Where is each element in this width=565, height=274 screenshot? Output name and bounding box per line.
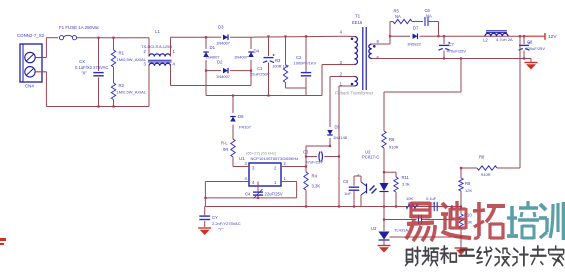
wire TL431 ref line [390,236,462,238]
svg-text:NA: NA [395,14,401,19]
wire FB trace rail [205,197,296,199]
capacitor CY [199,207,240,232]
transistor U3 TL431A [371,207,408,246]
common-mode choke L1 [141,29,176,107]
resistor R10 3.3K [459,207,473,249]
svg-text:D2: D2 [217,60,223,65]
watermark subtitle [406,0,564,274]
wire T1 pin3 to drain line [322,65,355,96]
svg-text:470uF/25V: 470uF/25V [447,49,467,54]
op-amp U1 NCP1014 box [239,151,298,187]
wire CN4 pin2 to bottom rail [35,72,46,107]
svg-text:CX: CX [79,59,85,64]
svg-text:D5: D5 [335,125,341,130]
svg-text:C5: C5 [343,179,349,184]
resistor R11 3.3k [384,172,410,206]
capacitor CX [75,38,108,107]
svg-text:C4: C4 [245,192,251,197]
capacitor C6 NA [425,8,439,26]
svg-text:1N4148: 1N4148 [333,135,348,140]
svg-text:4.7uH 2A: 4.7uH 2A [496,37,513,42]
svg-text:910R: 910R [481,172,491,177]
svg-text:NCP1014ST65T3G/65KHz: NCP1014ST65T3G/65KHz [251,156,299,161]
svg-text:CN4: CN4 [25,84,34,89]
svg-text:T1: T1 [355,14,361,19]
wire L1 pin4 to bridge AC2 [171,66,252,86]
wire secondary gnd rail [205,205,461,207]
svg-text:1M/0.5W_AXIAL: 1M/0.5W_AXIAL [117,89,147,94]
capacitor C2 [294,36,317,88]
svg-text:1N4007: 1N4007 [216,74,231,79]
wire 12V down to R8 [519,36,521,168]
svg-text:12V: 12V [548,34,557,40]
opto U2 PC817-C [354,150,389,207]
wire U1 pin3 [233,161,249,167]
watermark big text yiditou peixun [406,201,564,241]
capacitor C4 [245,182,283,199]
wire U1 pin2 VCC [281,161,307,168]
resistor R8 910R [461,155,520,178]
wire clamp bottom bar [286,88,307,96]
resistor R5 NA [390,9,423,24]
capacitor C7 [439,36,467,58]
resistor R3 [272,36,289,88]
wire U1 pin1 FB [281,176,297,198]
wire aux return pin1 column [339,86,346,207]
svg-text:220uF/25V: 220uF/25V [526,46,546,51]
wire T1 pin2 [346,76,355,78]
snubber loop wires [389,22,440,38]
svg-text:47uF/25V: 47uF/25V [306,160,324,165]
svg-text:PC817-C: PC817-C [362,155,379,160]
ground secondary output [525,59,538,70]
svg-text:CY: CY [212,215,218,220]
svg-text:R9: R9 [465,181,471,186]
svg-text:(65+22) (65 kHz): (65+22) (65 kHz) [246,151,277,156]
diode D2 [205,60,252,80]
svg-text:1N4007: 1N4007 [216,41,231,46]
svg-text:1N4007: 1N4007 [234,55,249,60]
wire output rail [439,35,546,37]
transformer T1 EE16 [340,14,380,91]
HV- horizontal line [206,94,322,96]
connector CN4 (CONN2-7_S2) [17,33,45,89]
svg-text:R6: R6 [389,137,395,142]
resistor R4 [304,167,321,207]
wire aux to VCC segment [306,146,330,167]
svg-text:12K: 12K [465,188,472,193]
svg-text:0R: 0R [223,147,228,152]
resistor R2 [111,83,147,107]
wire T1 pin6 return rail [372,57,531,59]
svg-text:R11: R11 [402,175,410,180]
svg-text:22uF/250V: 22uF/250V [250,72,270,77]
svg-text:3.3k: 3.3k [402,182,410,187]
diode D7 1N5822 [390,26,439,47]
wire T1 pin4 [346,35,355,37]
svg-text:NA: NA [426,14,432,19]
svg-text:C1: C1 [257,66,263,71]
svg-text:R1: R1 [119,51,125,56]
svg-text:C3: C3 [303,150,309,155]
svg-text:3.3K: 3.3K [312,184,321,189]
svg-text:FR107: FR107 [239,125,252,130]
diode D3 [206,25,251,46]
diode D6 [230,96,252,140]
svg-text:R2: R2 [119,83,125,88]
svg-text:R-L: R-L [221,141,228,146]
capacitor C1 [250,36,275,95]
svg-text:TL431A: TL431A [394,228,408,233]
svg-text:C7: C7 [449,42,455,47]
svg-text:R5: R5 [394,9,400,14]
svg-text:1nF: 1nF [344,191,351,196]
svg-text:L1: L1 [155,29,160,34]
HV- vertical from bridge [205,71,207,96]
wire top rail fuse to L1 [77,37,149,39]
diode D1 [203,37,220,70]
fuse F1 [59,25,100,40]
svg-text:R3: R3 [275,58,281,63]
wire L1 pin1 to bridge [171,37,207,56]
capacitor C9 0.1uF [418,196,461,211]
diode D5 [327,77,348,148]
diode D4 [234,37,260,70]
wire T1 pin8 [372,36,390,44]
svg-text:F1 FUSE 1A 250Vac: F1 FUSE 1A 250Vac [59,25,100,30]
svg-text:"Y": "Y" [218,227,224,232]
svg-text:1N5822: 1N5822 [407,42,422,47]
svg-text:C2: C2 [296,55,302,60]
svg-text:1M/0.5W_AXIAL: 1M/0.5W_AXIAL [117,57,147,62]
node AC1 [205,36,207,38]
resistor R7 10K [384,196,418,209]
svg-text:D7: D7 [413,26,419,31]
wire T1 pin1 [346,85,355,87]
svg-text:22uF/25V: 22uF/25V [265,192,283,197]
capacitor C8 [519,36,546,58]
svg-text:C8: C8 [527,40,533,45]
resistor R6 910R [382,131,399,172]
wire return to R6 [384,59,461,132]
svg-text:D6: D6 [238,114,244,119]
bottom rail input section [46,105,149,107]
wire left gnd vertical [204,182,206,207]
capacitor C3 [303,150,340,165]
red mark bottom left [0,238,6,245]
svg-text:R4: R4 [312,174,318,179]
svg-text:R8: R8 [479,155,485,160]
ground primary CY [198,228,211,235]
resistor R1 [111,38,147,83]
inductor L2 [483,31,513,43]
wire U1 pin4 [205,176,249,182]
ground under R10 [455,248,468,255]
svg-text:L2: L2 [483,38,488,43]
svg-text:2.2nF/Y275VAC: 2.2nF/Y275VAC [212,221,241,226]
svg-text:Flyback Transformer: Flyback Transformer [335,91,374,96]
resistor R-L 0R [221,139,235,167]
label flyback transformer [335,91,374,96]
svg-text:"X": "X" [81,71,87,76]
svg-text:D1: D1 [210,45,216,50]
output 12V terminal [545,33,557,40]
svg-text:0.1uF/X2 275VAC: 0.1uF/X2 275VAC [75,65,108,70]
wire CN4 pin1 to fuse [35,38,58,58]
capacitor C10 [383,205,453,224]
svg-text:U3: U3 [371,226,377,231]
svg-text:CONN2-7_S2: CONN2-7_S2 [17,33,45,38]
svg-text:D3: D3 [218,25,224,30]
HV+ rail to transformer [251,35,346,37]
svg-text:EE16: EE16 [352,20,363,25]
resistor R9 12K [459,167,473,208]
capacitor C5 [343,176,359,207]
svg-text:D4: D4 [254,49,260,54]
svg-text:C6: C6 [425,8,431,13]
ground under TL431 [378,246,391,253]
svg-text:1000PF/1KV: 1000PF/1KV [294,61,317,66]
svg-text:100R 1W: 100R 1W [272,64,289,69]
svg-text:910R: 910R [389,145,399,150]
